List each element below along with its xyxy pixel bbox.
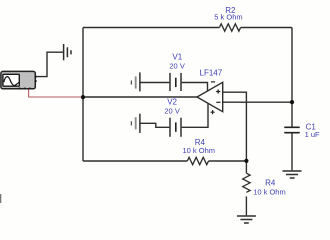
ground rotated at oscilloscope: [64, 44, 71, 60]
svg-text:V1: V1: [172, 52, 182, 61]
oscilloscope sine trace: [4, 77, 19, 86]
wire inverting input to right bus: [223, 101, 292, 103]
ground under R4: [237, 216, 256, 223]
op-amp negative supply marker: [211, 81, 215, 83]
oscilloscope XSC1 body: [1, 71, 35, 88]
oscilloscope screen: [3, 74, 19, 86]
capacitor C1: [284, 127, 299, 132]
battery V2: [131, 114, 181, 137]
wire left bus: [82, 28, 84, 162]
resistor R4 horizontal: [187, 157, 208, 164]
svg-text:LF147: LF147: [200, 68, 223, 77]
ground under C1: [283, 171, 302, 178]
svg-text:10 k Ohm: 10 k Ohm: [253, 188, 286, 197]
battery V1: [131, 72, 181, 91]
oscilloscope right terminals: [35, 76, 37, 78]
wire R2 right to corner: [241, 27, 292, 29]
svg-text:5 k Ohm: 5 k Ohm: [214, 13, 242, 22]
op-amp inverting input marker: [216, 101, 220, 103]
oscilloscope bottom terminals: [19, 88, 21, 90]
svg-text:20 V: 20 V: [169, 62, 184, 71]
wire R4 vertical to ground: [245, 196, 247, 215]
wire output node horizontal: [83, 96, 198, 98]
junction node feedback bottom: [244, 159, 248, 163]
svg-text:10 k Ohm: 10 k Ohm: [183, 146, 216, 155]
wire red from oscilloscope: [29, 89, 82, 97]
op-amp U1 LF147 triangle: [197, 82, 223, 111]
svg-text:1 uF: 1 uF: [305, 130, 320, 139]
wire noninverting input feedback: [223, 92, 247, 161]
svg-text:20 V: 20 V: [164, 107, 179, 116]
junction node inverting right: [290, 100, 294, 104]
edge artifact left: [0, 194, 1, 203]
wire top from left bus to R2 and to right bus: [83, 27, 219, 29]
wire V2 to op-amp positive supply pin: [182, 103, 208, 127]
svg-text:R4: R4: [265, 179, 276, 188]
resistor R2: [219, 24, 240, 31]
wire C1 to ground: [291, 133, 293, 170]
op-amp positive supply marker: [211, 110, 215, 114]
junction node output: [81, 95, 85, 99]
wire right bus down to C1: [291, 28, 293, 127]
wire oscilloscope to ground: [36, 52, 63, 76]
resistor R4 vertical: [243, 173, 250, 192]
wire bottom from left bus: [83, 160, 187, 162]
wire V1 to op-amp negative supply pin: [182, 83, 208, 92]
wire junction down to R4 vertical: [245, 161, 247, 173]
svg-text:V2: V2: [167, 98, 177, 107]
op-amp noninverting input marker: [216, 89, 220, 93]
wire R4 to junction: [209, 160, 247, 162]
